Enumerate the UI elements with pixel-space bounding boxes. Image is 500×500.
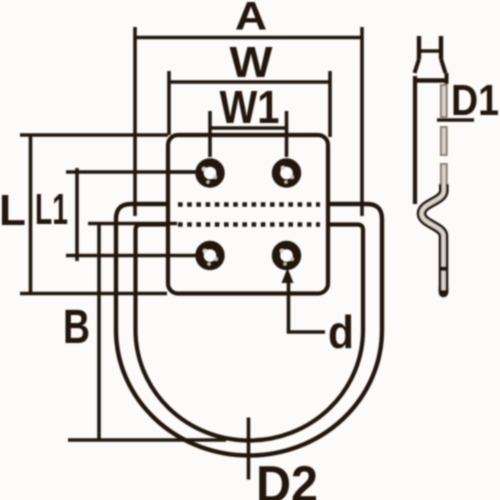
svg-text:W: W	[230, 38, 273, 87]
dimension W right extension	[328, 71, 332, 137]
dimension A left extension	[133, 27, 137, 216]
svg-text:D1: D1	[451, 76, 499, 125]
leader d arrowhead	[282, 268, 294, 283]
dimension W1 right extension	[285, 111, 289, 157]
dimension L1 top tick	[66, 170, 196, 174]
svg-text:d: d	[328, 306, 354, 358]
svg-text:L1: L1	[35, 185, 68, 234]
hole bottom-right	[276, 245, 297, 266]
hidden bar dotted bottom line	[178, 222, 320, 227]
side view D1 tick	[437, 118, 474, 122]
dimension W1 line	[210, 126, 287, 130]
svg-text:B: B	[63, 301, 90, 354]
dimension A right extension	[360, 27, 364, 216]
side view cap right stub	[445, 73, 449, 84]
dimension L top tick	[20, 133, 168, 137]
side view H right tick	[439, 36, 443, 59]
svg-text:D2: D2	[256, 456, 318, 500]
dimension W1 left extension	[208, 111, 212, 157]
svg-text:A: A	[235, 0, 267, 39]
loop inner outline	[136, 225, 364, 441]
side view H left tick	[417, 36, 421, 59]
side view plate left edge	[413, 76, 417, 204]
side view strip joint	[439, 267, 448, 272]
side view top cap	[413, 78, 448, 83]
pointer D2 line	[247, 418, 251, 480]
dimension L bottom tick	[20, 292, 167, 296]
loop outer outline	[116, 204, 382, 456]
side view S-bend and bottom strip	[422, 184, 449, 293]
side view H left oblique extension	[415, 59, 420, 73]
svg-text:W1: W1	[220, 81, 280, 133]
dimension L1 bottom tick	[66, 254, 196, 258]
side view H dim line	[419, 49, 441, 53]
svg-text:L: L	[0, 186, 26, 235]
leader d arrow line	[289, 280, 326, 332]
hole top-left	[200, 163, 221, 184]
hole bottom-left	[200, 245, 221, 266]
dimension W line	[169, 80, 330, 84]
dimension L line	[29, 135, 33, 294]
side view hidden wire dashes	[440, 84, 448, 186]
dimension B top tick	[88, 222, 177, 226]
hole extension line left top	[170, 170, 196, 174]
side view H right oblique extension	[441, 59, 446, 73]
dimension B bottom tick	[68, 438, 226, 442]
hidden bar dotted top line	[178, 202, 320, 207]
hole top-right	[276, 163, 297, 184]
dimension A line	[135, 36, 362, 40]
dimension L1 line	[75, 168, 79, 261]
plate outline	[168, 135, 328, 294]
dimension W left extension	[167, 71, 171, 135]
dimension B line	[97, 224, 101, 441]
